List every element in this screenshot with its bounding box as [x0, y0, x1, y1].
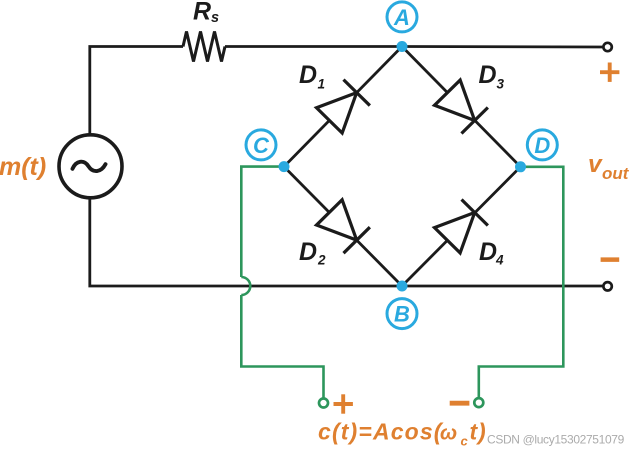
green wire from node D to - carrier terminal	[479, 167, 564, 398]
svg-text:ω: ω	[440, 422, 457, 445]
wire bridge branch C-B	[284, 167, 402, 286]
output + terminal	[603, 43, 611, 51]
svg-text:4: 4	[495, 253, 504, 268]
svg-text:2: 2	[317, 253, 326, 268]
svg-text:R: R	[193, 0, 211, 26]
svg-text:B: B	[394, 302, 410, 327]
node B badge	[387, 299, 417, 329]
svg-text:t): t)	[470, 419, 487, 445]
green - carrier terminal	[474, 398, 483, 407]
wire top-left vertical	[90, 47, 183, 135]
svg-text:CSDN @lucy15302751079: CSDN @lucy15302751079	[487, 433, 625, 447]
output + sign	[600, 63, 619, 82]
diode D4	[434, 200, 488, 254]
svg-text:v: v	[588, 151, 603, 178]
source m(t) circle	[59, 135, 122, 198]
svg-text:D: D	[534, 133, 550, 158]
svg-text:D: D	[299, 61, 317, 89]
wire source bottom to bottom rail	[90, 198, 603, 286]
svg-text:1: 1	[318, 77, 326, 92]
wire node A to + terminal	[402, 45, 603, 48]
carrier - sign	[450, 401, 470, 406]
green wire continues to + carrier terminal	[241, 295, 323, 399]
resistor Rs	[183, 32, 225, 62]
diode D1	[316, 80, 370, 134]
wire bridge branch B-D	[402, 167, 521, 286]
node C dot	[279, 161, 290, 172]
wire resistor to node A	[225, 45, 402, 48]
node A badge	[387, 2, 417, 32]
diode D3	[434, 80, 488, 134]
svg-text:A: A	[393, 5, 410, 30]
node A dot	[397, 41, 408, 52]
svg-text:m(t): m(t)	[0, 153, 46, 181]
node B dot	[397, 281, 408, 292]
svg-text:c: c	[461, 434, 469, 449]
output - terminal	[603, 282, 611, 290]
svg-text:c(t)=Acos(: c(t)=Acos(	[318, 419, 444, 445]
carrier + sign	[334, 394, 353, 413]
svg-text:s: s	[211, 10, 219, 26]
svg-text:D: D	[299, 238, 317, 266]
svg-text:3: 3	[497, 77, 505, 92]
node D badge	[527, 130, 557, 160]
green wire from node C to + carrier terminal	[241, 167, 284, 277]
svg-text:C: C	[253, 133, 270, 158]
diode D2	[316, 199, 370, 253]
svg-text:out: out	[602, 164, 630, 183]
svg-text:D: D	[479, 61, 497, 89]
node C badge	[246, 130, 276, 160]
green wire hop over bottom rail	[241, 277, 250, 295]
green + carrier terminal	[319, 399, 328, 408]
node D dot	[515, 161, 526, 172]
svg-text:D: D	[479, 238, 497, 266]
output - sign	[601, 257, 620, 262]
source sine symbol	[73, 162, 106, 171]
wire bridge branch C-A	[284, 47, 402, 167]
wire bridge branch A-D	[402, 47, 521, 167]
